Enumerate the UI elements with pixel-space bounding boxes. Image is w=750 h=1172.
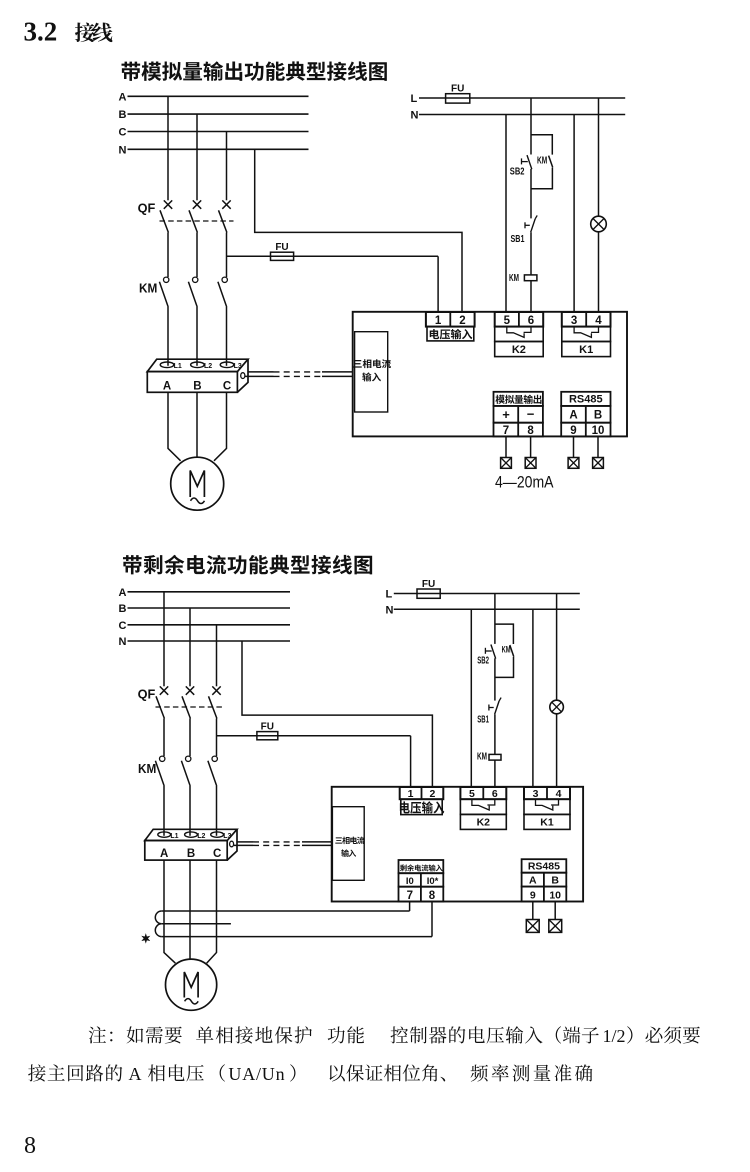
breaker QF pole C (d1) [219,200,231,277]
start button SB1 (d1) [511,215,538,245]
svg-text:L: L [411,93,418,105]
svg-text:FU: FU [422,579,435,590]
svg-text:7: 7 [503,425,509,437]
start button SB1 (d2) [477,698,501,726]
svg-text:SB2: SB2 [510,166,525,178]
svg-text:K1: K1 [579,344,593,356]
label KM (d2) [138,762,156,776]
fuse FU1 (d1) [446,84,470,103]
svg-text:10: 10 [592,425,605,437]
wire CT pair to device (d1) [245,372,353,377]
zero sequence CT coil (d2) [155,911,432,937]
svg-text:RS485: RS485 [569,394,603,406]
control supply L (d1) [411,93,626,105]
contactor KM pole C (d1) [218,277,228,366]
svg-text:N: N [119,636,127,648]
phase bus B (diagram 1) [119,109,309,121]
wire coil to terminal 6 (d1) [530,281,532,313]
control supply N (d1) [411,110,626,122]
svg-text:1/2: 1/2 [603,1026,626,1046]
CT input inner box 三相电流输入 (d2) [332,807,364,881]
svg-text:A: A [529,875,537,887]
svg-text:A: A [129,1064,142,1084]
svg-text:FU: FU [451,84,464,95]
svg-text:N: N [119,144,127,156]
wire SB1 to coil KM (d1) [530,232,532,275]
svg-text:−: − [527,407,535,422]
svg-text:+: + [502,407,510,422]
phase bus N (diagram 1) [119,144,309,156]
svg-text:A: A [163,381,171,393]
svg-text:KM: KM [139,281,157,295]
section heading 接线 [75,23,113,43]
svg-text:FU: FU [261,722,274,733]
svg-text:7: 7 [407,890,413,902]
svg-text:KM: KM [509,272,519,284]
svg-text:B: B [193,381,201,393]
svg-text:SB1: SB1 [477,715,489,726]
wire L to SB2 (d1) [530,98,532,155]
wire L to lamp (d2) [556,594,558,701]
earth terminal under 10 (d2) [549,902,562,933]
svg-text:10: 10 [549,890,561,902]
breaker QF pole B (d1) [189,200,201,277]
svg-text:B: B [551,875,559,887]
svg-text:4—20mA: 4—20mA [495,474,554,492]
terminal block 5/6 relay K2 (d1) [495,312,544,357]
svg-text:QF: QF [138,202,156,216]
breaker QF pole C (d2) [209,686,221,756]
wire B dropper to QF (d2) [189,608,191,686]
fuse FU1 (d2) [417,579,440,598]
current transformer block (d2) [145,829,237,860]
svg-text:A: A [160,848,168,860]
svg-text:L1: L1 [174,363,182,370]
terminal block 5/6 relay K2 (d2) [460,787,506,829]
svg-text:L: L [386,589,393,601]
note line 1 [89,1026,700,1046]
svg-text:B: B [594,410,602,422]
svg-text:A: A [119,587,127,599]
svg-text:KM: KM [477,752,487,763]
terminal block residual current input (d2) [399,860,444,902]
stop button SB2 (d1) [510,155,532,178]
CT input inner box 三相电流输入 (d1) [353,332,391,412]
svg-text:C: C [119,620,127,632]
contactor KM pole A (d1) [159,277,169,366]
contactor KM pole B (d2) [181,756,191,836]
controller device box (d2) [332,787,583,902]
svg-text:4: 4 [556,788,562,800]
earth terminal under 7 (d1) [501,436,512,468]
controller device box (d1) [353,312,627,437]
svg-text:B: B [119,603,127,615]
terminal block 1/2 电压输入 (d2) [400,787,445,815]
terminal block analog output 模拟量输出 +/- 7/8 (d1) [494,392,543,437]
svg-text:9: 9 [530,890,536,902]
page number 8 [24,1133,36,1159]
current transformer block (d1) [147,359,248,392]
svg-text:N: N [386,604,394,616]
svg-text:K2: K2 [477,817,491,829]
svg-text:B: B [119,109,127,121]
section heading 3.2 [24,17,58,47]
wire SB2 to SB1 (d1) [530,169,532,219]
wire N to terminal 3 (d2) [532,609,534,787]
earth terminal under 10 (d1) [593,436,604,468]
svg-text:3: 3 [533,788,539,800]
phase bus B (diagram 2) [119,603,291,615]
svg-text:K1: K1 [540,817,554,829]
svg-text:FU: FU [275,242,288,253]
wire SB2 to SB1 (d2) [494,658,496,700]
svg-text:A: A [119,91,127,103]
earth terminal under 9 (d2) [526,902,539,933]
breaker QF pole A (d2) [156,686,168,756]
wire N dropper to terminal 2 (d1) [255,149,462,313]
label QF (d1) [138,202,156,216]
svg-text:1: 1 [408,788,414,800]
wire A dropper to QF (d2) [163,592,165,687]
earth terminal under 8 (d1) [525,436,536,468]
earth terminal under 9 (d1) [568,436,579,468]
terminal block RS485 A/B 9/10 (d1) [561,392,610,437]
svg-text:L2: L2 [204,363,212,370]
wire B dropper to QF (d1) [196,114,198,200]
diagram 1 title 带模拟量输出功能典型接线图 [121,61,386,81]
terminal block 1/2 电压输入 (d1) [426,312,475,341]
fuse FU2 (d1) [227,242,439,313]
diagram 2 title 带剩余电流功能典型接线图 [123,555,372,575]
note line 2 [28,1064,592,1084]
wire N dropper to terminal 2 (d2) [242,641,432,787]
svg-text:UA/Un: UA/Un [228,1064,285,1084]
svg-text:2: 2 [459,315,465,327]
svg-text:6: 6 [492,788,498,800]
motor M1 (d1) [171,457,224,510]
svg-text:2: 2 [429,788,435,800]
svg-text:I0: I0 [406,876,414,887]
wire N to terminal 3 (d1) [573,115,575,314]
wire lamp to terminal 4 (d2) [556,714,558,787]
svg-text:B: B [187,848,195,860]
breaker QF pole B (d2) [182,686,194,756]
svg-text:4: 4 [595,315,602,327]
label KM (d1) [139,281,157,295]
contactor aux contact KM (d1) [531,135,553,189]
contactor coil KM (d1) [509,272,537,284]
wire C dropper to QF (d2) [216,625,218,687]
svg-text:K2: K2 [512,344,526,356]
contactor KM pole A (d2) [155,756,165,836]
svg-text:8: 8 [24,1133,36,1159]
svg-text:L3: L3 [223,833,231,840]
wire N to terminal 5 (d2) [470,609,472,787]
svg-text:8: 8 [527,425,534,437]
wire CT pair to device (d2) [234,842,332,846]
breaker QF pole A (d1) [160,200,172,277]
svg-text:5: 5 [504,315,511,327]
contactor coil KM (d2) [477,752,501,763]
stop button SB2 (d2) [477,645,496,667]
phase bus A (diagram 1) [119,91,309,103]
terminal block 3/4 relay K1 (d1) [562,312,611,357]
svg-text:RS485: RS485 [528,860,560,872]
svg-text:C: C [223,381,231,393]
fuse FU2 (d2) [217,722,411,787]
polarity star mark (d2) [143,935,149,942]
svg-text:6: 6 [528,315,534,327]
svg-text:QF: QF [138,688,156,702]
wire motor leads (d1) [168,392,227,461]
wire L to lamp (d1) [598,98,600,216]
svg-text:SB2: SB2 [477,655,489,666]
indicator lamp (d2) [550,700,564,714]
phase bus C (diagram 1) [119,127,309,139]
svg-text:1: 1 [435,315,442,327]
svg-text:SB1: SB1 [511,233,525,245]
control supply L (d2) [386,589,580,601]
wire terminal 7 to CT coil (d2) [409,902,411,912]
wire C dropper to QF (d1) [226,132,228,201]
indicator lamp (d1) [591,216,607,232]
svg-text:3: 3 [571,315,577,327]
wire terminal 8 to CT coil (d2) [431,902,433,937]
svg-text:N: N [411,110,419,122]
wire N to terminal 5 (d1) [505,115,507,314]
contactor KM pole B (d1) [188,277,198,366]
svg-text:9: 9 [570,425,576,437]
terminal block 3/4 relay K1 (d2) [524,787,570,829]
wire lamp to terminal 4 (d1) [598,232,600,313]
contactor KM pole C (d2) [208,756,218,836]
phase bus N (diagram 2) [119,636,291,648]
svg-text:KM: KM [138,762,156,776]
svg-text:L1: L1 [170,833,178,840]
wire motor leads (d2) [164,860,217,963]
motor M2 (d2) [166,959,217,1010]
label QF (d2) [138,688,156,702]
svg-text:L2: L2 [197,833,205,840]
contactor aux contact KM (d2) [495,624,514,677]
wire coil to terminal 6 (d2) [494,760,496,787]
svg-text:3.2: 3.2 [24,17,58,47]
control supply N (d2) [386,604,580,616]
phase bus C (diagram 2) [119,620,291,632]
breaker QF linkage (d2) [156,706,224,708]
svg-text:8: 8 [429,890,436,902]
wire SB1 to coil KM (d2) [494,714,496,754]
svg-text:L3: L3 [234,363,242,370]
breaker QF linkage (d1) [160,220,234,222]
svg-text:C: C [119,127,127,139]
wire A dropper to QF (d1) [167,96,169,200]
terminal block RS485 A/B 9/10 (d2) [522,859,567,901]
wire L to SB2 (d2) [494,594,496,644]
svg-text:KM: KM [537,156,547,167]
phase bus A (diagram 2) [119,587,291,599]
label 4-20mA (d1) [495,474,554,492]
svg-text:KM: KM [502,645,511,656]
svg-text:5: 5 [469,788,475,800]
svg-text:I0*: I0* [427,876,439,887]
svg-text:A: A [569,410,577,422]
svg-text:C: C [213,848,221,860]
